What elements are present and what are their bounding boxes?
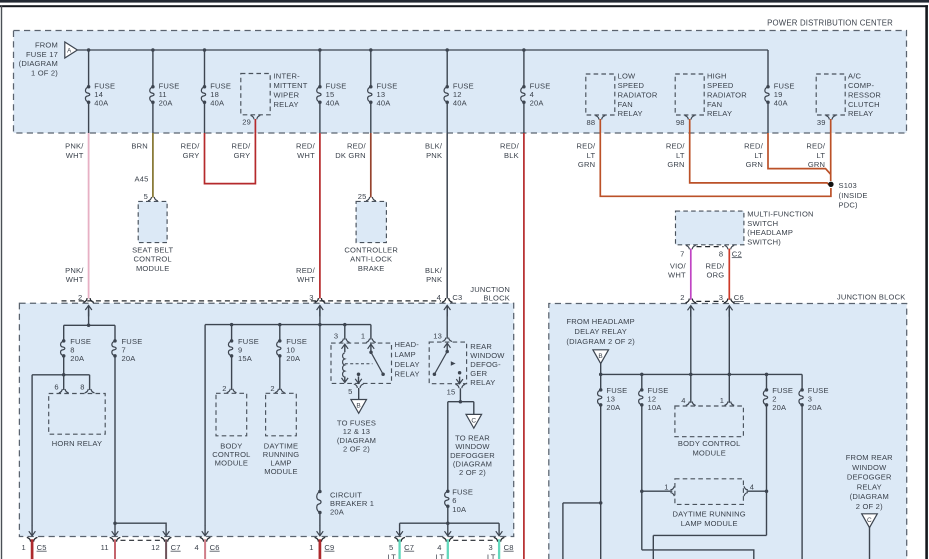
- svg-text:WINDOW: WINDOW: [852, 463, 887, 472]
- svg-text:WINDOW: WINDOW: [470, 351, 505, 360]
- svg-text:GRY: GRY: [234, 151, 251, 160]
- svg-text:2: 2: [270, 384, 274, 393]
- svg-text:LT: LT: [387, 552, 396, 559]
- svg-text:PNK: PNK: [426, 275, 442, 284]
- svg-text:4: 4: [681, 396, 685, 405]
- svg-text:WHT: WHT: [297, 151, 315, 160]
- svg-text:ORG: ORG: [707, 271, 725, 280]
- svg-text:HORN RELAY: HORN RELAY: [52, 439, 103, 448]
- svg-text:LAMP: LAMP: [395, 350, 416, 359]
- svg-text:FUSE 17: FUSE 17: [26, 50, 58, 59]
- svg-text:RED/: RED/: [744, 142, 764, 151]
- svg-text:4: 4: [750, 482, 754, 491]
- svg-text:INTER-: INTER-: [274, 72, 301, 81]
- svg-text:C: C: [867, 517, 872, 524]
- svg-text:2: 2: [78, 293, 82, 302]
- svg-text:LT: LT: [436, 552, 445, 559]
- svg-text:RELAY: RELAY: [618, 109, 643, 118]
- svg-text:LT: LT: [817, 151, 826, 160]
- svg-text:RED/: RED/: [806, 142, 826, 151]
- svg-text:40A: 40A: [377, 99, 392, 108]
- svg-text:GRN: GRN: [746, 160, 763, 169]
- svg-text:(DIAGRAM: (DIAGRAM: [850, 492, 889, 501]
- svg-text:8: 8: [719, 249, 723, 258]
- svg-text:3: 3: [488, 543, 492, 552]
- svg-text:1: 1: [309, 543, 313, 552]
- svg-text:SPEED: SPEED: [707, 81, 734, 90]
- svg-text:GRY: GRY: [183, 151, 200, 160]
- svg-text:GRN: GRN: [578, 160, 595, 169]
- svg-text:25: 25: [358, 192, 367, 201]
- svg-text:RELAY: RELAY: [848, 109, 873, 118]
- svg-text:10A: 10A: [452, 505, 467, 514]
- svg-text:HIGH: HIGH: [707, 72, 727, 81]
- svg-text:8: 8: [80, 382, 84, 391]
- svg-text:BLOCK: BLOCK: [483, 294, 510, 303]
- svg-text:RED/: RED/: [296, 142, 316, 151]
- svg-text:RED/: RED/: [232, 142, 252, 151]
- svg-text:20A: 20A: [330, 508, 345, 517]
- svg-text:RESSOR: RESSOR: [848, 90, 881, 99]
- svg-text:40A: 40A: [326, 99, 341, 108]
- svg-text:RED/: RED/: [181, 142, 201, 151]
- svg-text:C6: C6: [734, 293, 744, 302]
- svg-text:FROM: FROM: [35, 41, 58, 50]
- svg-text:2: 2: [680, 293, 684, 302]
- svg-text:SWITCH: SWITCH: [747, 219, 778, 228]
- svg-text:RED/: RED/: [296, 266, 316, 275]
- svg-text:PDC): PDC): [839, 201, 859, 210]
- svg-text:WHT: WHT: [66, 151, 84, 160]
- svg-text:MODULE: MODULE: [692, 448, 726, 457]
- svg-text:20A: 20A: [159, 99, 174, 108]
- svg-text:POWER DISTRIBUTION CENTER: POWER DISTRIBUTION CENTER: [767, 19, 893, 28]
- svg-text:A/C: A/C: [848, 72, 862, 81]
- svg-text:MODULE: MODULE: [215, 459, 249, 468]
- svg-text:(DIAGRAM 2 OF 2): (DIAGRAM 2 OF 2): [566, 337, 635, 346]
- svg-text:C2: C2: [732, 249, 742, 258]
- svg-text:RELAY: RELAY: [707, 109, 732, 118]
- svg-text:CONTROL: CONTROL: [134, 255, 172, 264]
- svg-text:1 OF 2): 1 OF 2): [31, 68, 58, 77]
- svg-text:RADIATOR: RADIATOR: [707, 90, 747, 99]
- svg-text:GRN: GRN: [667, 160, 684, 169]
- svg-text:BRN: BRN: [131, 142, 148, 151]
- svg-text:C9: C9: [324, 543, 334, 552]
- svg-text:RED/: RED/: [576, 142, 596, 151]
- svg-text:CONTROLLER: CONTROLLER: [344, 245, 398, 254]
- svg-text:12: 12: [151, 543, 160, 552]
- svg-text:20A: 20A: [772, 403, 787, 412]
- svg-text:2 OF 2): 2 OF 2): [343, 444, 370, 453]
- svg-text:2: 2: [222, 384, 226, 393]
- svg-text:PNK: PNK: [426, 151, 442, 160]
- svg-text:JUNCTION BLOCK: JUNCTION BLOCK: [837, 293, 906, 302]
- svg-text:PNK/: PNK/: [65, 142, 84, 151]
- svg-text:20A: 20A: [70, 354, 85, 363]
- svg-text:6: 6: [54, 382, 58, 391]
- svg-text:20A: 20A: [122, 354, 137, 363]
- svg-text:RED/: RED/: [666, 142, 686, 151]
- svg-text:FAN: FAN: [707, 100, 722, 109]
- svg-text:29: 29: [242, 118, 251, 127]
- svg-text:DAYTIME RUNNING: DAYTIME RUNNING: [673, 509, 746, 518]
- svg-text:20A: 20A: [530, 99, 545, 108]
- svg-text:DELAY RELAY: DELAY RELAY: [574, 327, 627, 336]
- svg-text:(INSIDE: (INSIDE: [839, 191, 868, 200]
- svg-text:1: 1: [720, 396, 724, 405]
- svg-text:3: 3: [309, 293, 313, 302]
- svg-text:15A: 15A: [238, 354, 253, 363]
- svg-text:FROM HEADLAMP: FROM HEADLAMP: [566, 317, 634, 326]
- svg-text:RADIATOR: RADIATOR: [618, 90, 658, 99]
- svg-text:RED/: RED/: [347, 142, 367, 151]
- svg-text:88: 88: [587, 118, 596, 127]
- svg-text:1: 1: [664, 482, 668, 491]
- svg-text:40A: 40A: [453, 99, 468, 108]
- svg-text:LT: LT: [487, 552, 496, 559]
- svg-text:C5: C5: [37, 543, 47, 552]
- svg-text:13: 13: [433, 331, 442, 340]
- svg-text:3: 3: [334, 332, 338, 341]
- svg-text:5: 5: [348, 387, 352, 396]
- svg-text:4: 4: [194, 543, 198, 552]
- svg-text:DEFOG-: DEFOG-: [470, 360, 501, 369]
- svg-text:1: 1: [361, 332, 365, 341]
- svg-text:RED/: RED/: [705, 261, 725, 270]
- svg-text:DK GRN: DK GRN: [335, 151, 366, 160]
- svg-text:40A: 40A: [94, 99, 109, 108]
- svg-text:C: C: [471, 417, 476, 424]
- svg-text:(HEADLAMP: (HEADLAMP: [747, 228, 793, 237]
- svg-text:10A: 10A: [648, 403, 663, 412]
- svg-text:DELAY: DELAY: [395, 360, 420, 369]
- svg-text:MODULE: MODULE: [136, 264, 170, 273]
- svg-text:RELAY: RELAY: [274, 100, 299, 109]
- svg-text:7: 7: [680, 249, 684, 258]
- svg-text:RELAY: RELAY: [857, 482, 882, 491]
- svg-text:BRAKE: BRAKE: [358, 264, 385, 273]
- svg-text:FAN: FAN: [618, 100, 633, 109]
- svg-text:LOW: LOW: [618, 72, 636, 81]
- svg-text:BLK/: BLK/: [425, 142, 443, 151]
- svg-text:ANTI-LOCK: ANTI-LOCK: [350, 255, 392, 264]
- svg-text:C3: C3: [452, 293, 462, 302]
- svg-text:HEAD-: HEAD-: [395, 340, 420, 349]
- svg-text:11: 11: [101, 543, 109, 552]
- svg-text:JUNCTION: JUNCTION: [470, 285, 510, 294]
- svg-text:C7: C7: [171, 543, 181, 552]
- svg-text:MULTI-FUNCTION: MULTI-FUNCTION: [747, 210, 813, 219]
- svg-text:5: 5: [389, 543, 393, 552]
- svg-text:WHT: WHT: [668, 271, 686, 280]
- svg-text:RELAY: RELAY: [470, 378, 495, 387]
- svg-text:2 OF 2): 2 OF 2): [459, 468, 486, 477]
- svg-text:C7: C7: [404, 543, 414, 552]
- svg-text:39: 39: [817, 118, 826, 127]
- svg-text:40A: 40A: [774, 99, 789, 108]
- svg-text:WHT: WHT: [297, 275, 315, 284]
- svg-text:MITTENT: MITTENT: [274, 81, 308, 90]
- svg-text:WIPER: WIPER: [274, 90, 300, 99]
- svg-text:CLUTCH: CLUTCH: [848, 100, 880, 109]
- svg-text:BLK: BLK: [504, 151, 519, 160]
- svg-text:C8: C8: [504, 543, 514, 552]
- svg-text:(DIAGRAM: (DIAGRAM: [19, 59, 58, 68]
- svg-text:SPEED: SPEED: [618, 81, 645, 90]
- svg-text:DEFOGGER: DEFOGGER: [847, 473, 892, 482]
- svg-text:B: B: [356, 403, 361, 410]
- svg-text:GER: GER: [470, 369, 487, 378]
- svg-text:MODULE: MODULE: [264, 467, 298, 476]
- svg-text:S103: S103: [839, 181, 857, 190]
- svg-text:BLK/: BLK/: [425, 266, 443, 275]
- svg-text:VIO/: VIO/: [670, 261, 687, 270]
- svg-text:LT: LT: [754, 151, 763, 160]
- svg-text:4: 4: [437, 543, 441, 552]
- svg-text:BODY CONTROL: BODY CONTROL: [678, 439, 741, 448]
- svg-text:LAMP MODULE: LAMP MODULE: [681, 519, 738, 528]
- svg-text:15: 15: [447, 387, 456, 396]
- svg-text:RELAY: RELAY: [395, 370, 420, 379]
- svg-text:WHT: WHT: [66, 275, 84, 284]
- svg-text:REAR: REAR: [470, 342, 492, 351]
- svg-text:C6: C6: [210, 543, 220, 552]
- svg-text:5: 5: [144, 192, 148, 201]
- svg-text:20A: 20A: [606, 403, 621, 412]
- svg-text:40A: 40A: [210, 99, 225, 108]
- svg-text:A45: A45: [134, 175, 148, 184]
- svg-text:2 OF 2): 2 OF 2): [856, 502, 883, 511]
- svg-text:A: A: [67, 47, 72, 54]
- svg-text:98: 98: [676, 118, 685, 127]
- svg-text:PNK/: PNK/: [65, 266, 84, 275]
- svg-text:20A: 20A: [286, 354, 301, 363]
- svg-text:SWITCH): SWITCH): [747, 237, 781, 246]
- svg-text:COMP-: COMP-: [848, 81, 874, 90]
- svg-text:LT: LT: [587, 151, 596, 160]
- svg-text:1: 1: [21, 543, 25, 552]
- svg-text:B: B: [598, 353, 603, 360]
- svg-text:4: 4: [437, 293, 441, 302]
- svg-text:FROM REAR: FROM REAR: [846, 453, 893, 462]
- svg-text:LT: LT: [676, 151, 685, 160]
- svg-text:RED/: RED/: [500, 142, 520, 151]
- svg-text:20A: 20A: [808, 403, 823, 412]
- svg-text:SEAT BELT: SEAT BELT: [132, 245, 173, 254]
